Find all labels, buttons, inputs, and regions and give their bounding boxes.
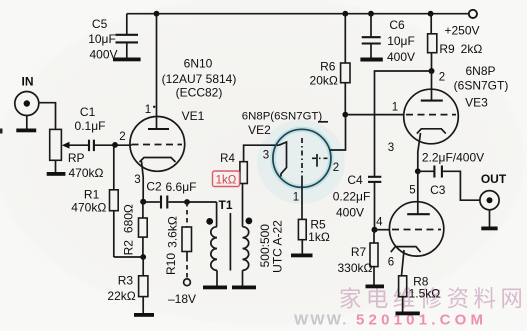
svg-text:(ECC82): (ECC82) [176,86,223,100]
capacitor C2 [146,179,217,208]
T1 secondary winding [243,227,249,271]
svg-text:–18V: –18V [168,292,196,306]
svg-text:C3: C3 [430,183,446,197]
wire: VE3a cathode lead [418,133,421,171]
svg-text:1: 1 [145,104,151,116]
svg-text:1: 1 [392,101,398,113]
wire: R9 node to C4 [375,71,432,176]
capacitor C5 [88,14,140,62]
wire: node to VE3b grid [375,229,390,231]
watermark row 2 [294,312,487,329]
svg-text:C2: C2 [146,179,162,193]
VE1 plate bar [148,128,169,130]
resistor R4 [213,145,280,227]
svg-text:2.2μF/400V: 2.2μF/400V [422,151,484,165]
tube VE2 6N8P [242,111,339,204]
svg-text:R10: R10 [164,253,178,275]
resistor R10 [164,202,192,279]
svg-text:3: 3 [388,142,394,154]
VE2 right electrode [316,154,318,167]
svg-text:6N10: 6N10 [184,56,213,70]
svg-text:22kΩ: 22kΩ [107,289,135,303]
IN jack [15,74,39,132]
VE2 left electrode [279,142,287,177]
svg-text:OUT: OUT [481,172,507,186]
svg-text:470kΩ: 470kΩ [71,201,106,215]
+250V terminal [444,10,479,38]
svg-text:1.5kΩ: 1.5kΩ [409,286,441,300]
resistor R9 [428,14,483,71]
svg-text:C1: C1 [80,105,96,119]
VE3b grid (dashed) [392,229,441,231]
resistor R8 [396,275,441,316]
wire: VE2 plate to R6 node [330,115,346,150]
VE2 right dash line [312,157,331,159]
svg-text:6.6μF: 6.6μF [166,180,197,194]
svg-text:400V: 400V [387,50,415,64]
wire: VE1 cathode lead [142,161,144,200]
capacitor C6 [360,14,415,64]
wire: R1 bottom to R2/R3 node [114,256,143,258]
resistor R5 [291,217,330,257]
VE3b cathode [391,247,421,253]
wire: VE3b cathode lead [402,250,405,276]
capacitor C4 [333,173,382,230]
svg-text:400V: 400V [89,47,117,61]
svg-text:R1: R1 [84,188,100,202]
svg-text:RP: RP [68,151,85,165]
resistor R6 [310,14,350,115]
node: rail junction C6 [368,11,374,17]
svg-text:0.1μF: 0.1μF [75,119,106,133]
VE3a grid (dashed) [406,114,456,116]
wire: VE2 cathode to R5 [301,187,303,219]
wire: plate lead [417,171,419,214]
svg-text:3: 3 [134,174,140,186]
svg-text:(12AU7 5814): (12AU7 5814) [162,72,237,86]
svg-text:T1: T1 [218,198,232,212]
svg-text:0.22μF: 0.22μF [333,190,371,204]
node: VE2 plate / R6 / VE3 grid [342,112,348,118]
svg-text:3: 3 [263,150,269,162]
T1 phasing dot primary [206,218,213,225]
T1 primary winding [211,227,217,271]
VE1 grid (dashed) [132,144,183,146]
resistor R7 [338,230,385,288]
node: VE1 grid / C1 / R1 junction [112,142,118,148]
svg-text:R9: R9 [439,42,455,56]
svg-text:1kΩ: 1kΩ [308,230,330,244]
svg-text:1: 1 [293,192,299,204]
svg-text:IN: IN [22,74,34,88]
svg-text:UTC A-22: UTC A-22 [271,220,285,273]
svg-text:WWW.: WWW. [294,312,349,329]
svg-text:680Ω: 680Ω [122,204,136,233]
transformer T1 [203,198,285,289]
svg-text:3.6kΩ: 3.6kΩ [166,216,180,248]
VE3a cathode [417,129,446,134]
svg-text:2: 2 [439,72,445,84]
node: R1/R2/R3 junction [140,254,146,260]
node: VE3a cathode / C3 / VE3b plate [415,168,421,174]
cyan highlight halo around VE2 [257,120,345,204]
red highlight box with 1kΩ [213,171,240,187]
wire: VE1 plate lead to rail [156,14,158,129]
potentiometer RP [47,129,104,180]
T1 phasing dot secondary [246,218,253,225]
resistor R2 [122,201,148,257]
node: rail junction R6 [342,11,348,17]
svg-text:VE1: VE1 [182,109,205,123]
node: C2 / R10 / T1 junction [184,199,190,205]
svg-text:R7: R7 [351,245,367,259]
svg-text:C4: C4 [347,173,363,187]
wire: node to VE3 grid [345,114,404,116]
resistor R1 [71,145,118,257]
VE1 envelope [130,116,185,171]
svg-text:VE2: VE2 [248,123,271,137]
svg-text:R6: R6 [320,59,336,73]
VE3b plate bar [407,213,430,215]
svg-text:R4: R4 [220,153,235,165]
svg-text:520101.COM: 520101.COM [356,312,487,329]
tube VE1 6N10 [119,14,236,201]
svg-text:2: 2 [333,162,339,174]
svg-text:470kΩ: 470kΩ [69,166,104,180]
tube VE3 (upper half) [388,64,509,171]
capacitor C3 [418,151,484,201]
svg-text:R3: R3 [118,274,134,288]
svg-text:C5: C5 [92,17,108,31]
VE2 center grid (dash-dot) [301,138,303,176]
svg-text:20kΩ: 20kΩ [310,73,338,87]
wire: IN jack to RP [39,103,56,130]
node: C4 / R7 / VE3b grid [372,227,378,233]
OUT jack [480,172,507,231]
svg-text:C6: C6 [389,18,405,32]
svg-text:5: 5 [409,184,415,196]
svg-text:400V: 400V [336,206,364,220]
node: VE1 cathode junction [140,199,146,205]
svg-text:4: 4 [376,217,383,229]
svg-text:6N8P: 6N8P [465,64,495,78]
svg-text:VE3: VE3 [465,96,488,110]
tube VE3 (lower half) [388,171,444,275]
svg-text:2kΩ: 2kΩ [461,42,483,56]
svg-text:6N8P(6SN7GT): 6N8P(6SN7GT) [242,111,323,123]
svg-text:+250V: +250V [444,24,479,38]
svg-text:2: 2 [119,131,125,143]
VE1 cathode [140,158,176,163]
T1 core [229,213,231,271]
node: rail junction VE1 plate [154,11,160,17]
VE3a plate bar [421,100,443,102]
svg-text:330kΩ: 330kΩ [338,261,373,275]
resistor R3 [107,257,154,317]
wire: top B+ rail [127,13,469,15]
svg-text:6: 6 [388,256,394,268]
wire: C2 to primary top [216,202,218,227]
node: rail junction R9 [428,11,434,17]
svg-text:1kΩ: 1kΩ [216,175,237,187]
svg-text:R2: R2 [122,240,136,256]
node: R9 / C4 / VE3 plate [429,68,435,74]
svg-text:(6SN7GT): (6SN7GT) [454,78,509,92]
-18V terminal [168,279,196,306]
svg-text:10μF: 10μF [88,32,116,46]
svg-text:10μF: 10μF [387,34,415,48]
wire: plate lead [431,71,433,101]
edge mark left [0,129,3,134]
capacitor C1 [75,105,132,151]
